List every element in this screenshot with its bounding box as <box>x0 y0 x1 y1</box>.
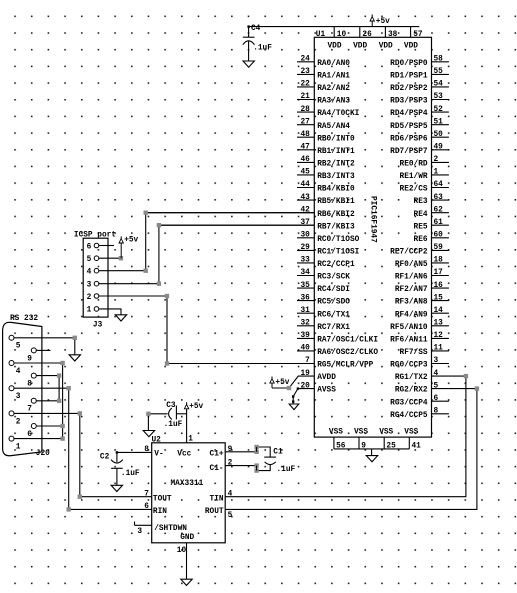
svg-text:RF0/AN5: RF0/AN5 <box>395 261 428 269</box>
svg-text:RG4/CCP5: RG4/CCP5 <box>390 412 428 420</box>
svg-text:RC2/CCP1: RC2/CCP1 <box>317 261 355 269</box>
IC U2 MAX3311 body <box>152 443 226 543</box>
ground (C3) <box>143 431 154 437</box>
svg-text:RS 232: RS 232 <box>10 315 38 323</box>
U1 pin 5 RG2/RX2 <box>395 382 449 394</box>
svg-text:5: 5 <box>87 256 92 264</box>
J20 pin 6 <box>27 424 62 439</box>
U1 pin 42 RB6/KBI2 <box>146 206 355 218</box>
U1 pin 43 RB5/KBI1 <box>297 194 355 206</box>
svg-text:6: 6 <box>27 431 32 439</box>
U1 pin 11 RF7/SS <box>400 345 449 357</box>
svg-text:GND: GND <box>180 534 194 542</box>
svg-text:16: 16 <box>434 282 444 290</box>
svg-text:9: 9 <box>228 446 233 454</box>
J3 pin 4 <box>87 268 99 276</box>
svg-text:15: 15 <box>434 294 444 302</box>
svg-text:3: 3 <box>137 528 142 536</box>
svg-text:2: 2 <box>16 418 21 426</box>
junction <box>57 373 61 377</box>
svg-text:RC1/T1OSI: RC1/T1OSI <box>317 249 359 257</box>
U1 pin 39 RA7/OSC1/CLKI <box>297 332 378 344</box>
J3 pin 5 <box>87 256 99 264</box>
svg-text:C2: C2 <box>100 453 110 461</box>
svg-text:6: 6 <box>87 243 92 251</box>
svg-text:RA2/AN2: RA2/AN2 <box>317 85 350 93</box>
svg-text:54: 54 <box>434 81 444 89</box>
svg-text:RD3/PSP3: RD3/PSP3 <box>390 98 428 106</box>
svg-text:8: 8 <box>434 408 439 416</box>
junction <box>57 399 61 403</box>
svg-text:17: 17 <box>434 269 444 277</box>
svg-text:.1uF: .1uF <box>164 421 183 429</box>
U1 pin 23 RA1/AN1 <box>297 68 350 80</box>
wire C1 jog bottom <box>256 466 258 471</box>
svg-text:.1uF: .1uF <box>253 45 272 53</box>
junction <box>157 282 161 286</box>
connector J20 RS232 DB9 shell <box>3 322 42 455</box>
svg-text:RF3/AN8: RF3/AN8 <box>395 299 428 307</box>
svg-text:9: 9 <box>27 355 32 363</box>
svg-text:58: 58 <box>434 56 444 64</box>
capacitor C4 <box>243 25 255 61</box>
capacitor C2 <box>111 451 123 485</box>
wire J20 pins 4-6-1 loopback <box>62 363 64 439</box>
J20 pin 7 <box>27 398 59 413</box>
U1 pin 49 RD7/PSP7 <box>390 144 449 156</box>
U1 pin 44 RB4/KBI0 <box>297 181 355 193</box>
svg-text:RA6/OSC2/CLKO: RA6/OSC2/CLKO <box>317 349 378 357</box>
U1 pin 36 RC5/SDO <box>297 294 350 306</box>
ground (C4) <box>243 61 254 67</box>
J20 pin 9 <box>27 348 50 363</box>
U2 pin 6 RIN <box>144 503 167 516</box>
svg-text:Vcc: Vcc <box>177 451 191 459</box>
svg-text:29: 29 <box>300 244 310 252</box>
svg-text:52: 52 <box>434 106 444 114</box>
+5V supply symbol (AVDD) <box>271 377 273 379</box>
svg-text:VSS: VSS <box>404 429 418 437</box>
U1 pin 35 RC4/SDI <box>297 282 350 294</box>
svg-text:32: 32 <box>300 320 310 328</box>
svg-text:RE5: RE5 <box>414 223 428 231</box>
svg-text:V-: V- <box>154 451 163 459</box>
svg-text:53: 53 <box>434 93 444 101</box>
svg-text:+5v: +5v <box>376 18 390 26</box>
svg-text:ROUT: ROUT <box>205 508 224 516</box>
svg-text:VDD: VDD <box>328 42 342 50</box>
svg-text:5: 5 <box>434 382 439 390</box>
J3 pin 3 <box>87 281 99 289</box>
svg-text:10: 10 <box>177 547 187 555</box>
U2 pin 2 C1- <box>210 459 257 473</box>
svg-text:RC3/SCK: RC3/SCK <box>317 274 350 282</box>
svg-text:RC5/SDO: RC5/SDO <box>317 299 350 307</box>
wire J20 pin2 to U2 TOUT <box>80 413 152 496</box>
U1 pin 34 RC3/SCK <box>297 269 350 281</box>
svg-text:RF2/AN7: RF2/AN7 <box>395 286 428 294</box>
J20 pin 1 <box>9 436 63 451</box>
U1 pin 60 RE6 <box>414 232 449 244</box>
svg-text:43: 43 <box>300 194 310 202</box>
svg-text:RG5/MCLR/VPP: RG5/MCLR/VPP <box>317 362 373 370</box>
junction <box>157 223 161 227</box>
svg-text:5: 5 <box>16 343 21 351</box>
junction <box>146 412 150 416</box>
svg-text:RD2/PSP2: RD2/PSP2 <box>390 85 428 93</box>
svg-text:RA5/AN4: RA5/AN4 <box>317 123 350 131</box>
svg-text:RD4/PSP4: RD4/PSP4 <box>390 110 428 118</box>
ground (J20 pin5) <box>69 355 80 361</box>
svg-text:RA7/OSC1/CLKI: RA7/OSC1/CLKI <box>317 337 378 345</box>
svg-text:.1uF: .1uF <box>277 466 296 474</box>
svg-text:62: 62 <box>434 206 444 214</box>
junction <box>73 336 77 340</box>
wire U2 TIN to U1 RG1/TX2 <box>225 376 466 497</box>
svg-text:RB0/INT0: RB0/INT0 <box>317 135 355 143</box>
svg-text:RB2/INT2: RB2/INT2 <box>317 161 355 169</box>
svg-text:1: 1 <box>16 444 21 452</box>
U1 pin 12 RF6/AN11 <box>390 332 449 344</box>
svg-text:21: 21 <box>300 93 310 101</box>
svg-text:7: 7 <box>144 490 149 498</box>
svg-text:31: 31 <box>300 307 310 315</box>
svg-text:57: 57 <box>413 31 423 39</box>
svg-text:23: 23 <box>300 68 310 76</box>
svg-text:C1-: C1- <box>210 465 224 473</box>
svg-text:RE2/CS: RE2/CS <box>400 186 428 194</box>
svg-text:59: 59 <box>434 244 444 252</box>
svg-text:25: 25 <box>386 442 396 450</box>
svg-text:RE0/RD: RE0/RD <box>400 161 428 169</box>
svg-text:8: 8 <box>144 446 149 454</box>
U1 pin 62 RE4 <box>414 206 449 218</box>
junction <box>119 256 123 260</box>
J20 pin 3 <box>9 386 69 401</box>
U1 pin 27 RA5/AN4 <box>297 118 350 130</box>
junction <box>254 463 258 467</box>
U2 pin 1 Vcc <box>177 409 193 459</box>
svg-text:RB1/INT1: RB1/INT1 <box>317 148 355 156</box>
junction <box>144 269 148 273</box>
svg-text:J3: J3 <box>93 322 103 330</box>
svg-text:12: 12 <box>434 332 444 340</box>
U2 pin 9 C1+ <box>210 446 257 458</box>
svg-text:26: 26 <box>362 31 372 39</box>
svg-text:VSS: VSS <box>354 429 368 437</box>
U1 pin 13 RF5/AN10 <box>390 320 449 332</box>
svg-text:RC4/SDI: RC4/SDI <box>317 286 350 294</box>
svg-text:RD7/PSP7: RD7/PSP7 <box>390 148 428 156</box>
svg-text:RB3/INT3: RB3/INT3 <box>317 173 355 181</box>
U1 pin 47 RB1/INT1 <box>297 144 355 156</box>
svg-text:36: 36 <box>300 294 310 302</box>
U1 pin 46 RB2/INT2 <box>297 156 355 168</box>
U1 pin 6 RG3/CCP4 <box>390 395 449 407</box>
svg-text:+5v: +5v <box>124 237 138 245</box>
svg-text:28: 28 <box>300 106 310 114</box>
svg-text:RA4/T0CKI: RA4/T0CKI <box>317 110 359 118</box>
svg-text:5: 5 <box>228 512 233 520</box>
junction <box>78 411 82 415</box>
J3 pin 2 <box>87 294 99 302</box>
svg-text:46: 46 <box>300 156 310 164</box>
U1 pin 32 RC7/RX1 <box>297 320 350 332</box>
svg-text:24: 24 <box>300 56 310 64</box>
svg-text:VDD: VDD <box>353 42 367 50</box>
U1 pin 7 RG5/MCLR/VPP <box>167 357 374 369</box>
svg-text:RF7/SS: RF7/SS <box>400 349 428 357</box>
svg-text:56: 56 <box>336 442 346 450</box>
svg-text:33: 33 <box>300 257 310 265</box>
U1 pin 16 RF2/AN7 <box>395 282 449 294</box>
capacitor C3 <box>148 406 186 420</box>
svg-text:TOUT: TOUT <box>153 495 172 503</box>
svg-text:RG0/CCP3: RG0/CCP3 <box>390 362 428 370</box>
svg-text:TIN: TIN <box>210 495 224 503</box>
svg-text:RA0/AN0: RA0/AN0 <box>317 60 350 68</box>
U1 pin 37 RB7/KBI3 <box>159 219 355 231</box>
svg-text:38: 38 <box>388 31 398 39</box>
U1 pin 48 RB0/INT0 <box>297 131 355 143</box>
svg-text:3: 3 <box>434 357 439 365</box>
svg-text:1: 1 <box>434 169 439 177</box>
J20 pin 5 <box>9 335 75 350</box>
junction <box>254 468 258 472</box>
svg-text:44: 44 <box>300 181 310 189</box>
wire J3 pin1 to ground <box>99 309 121 315</box>
junction <box>165 361 169 365</box>
svg-text:49: 49 <box>434 144 444 152</box>
svg-text:63: 63 <box>434 194 444 202</box>
svg-text:11: 11 <box>434 345 444 353</box>
svg-text:34: 34 <box>300 269 310 277</box>
U1 pin 63 RE3 <box>414 194 449 206</box>
U1 pin 55 RD1/PSP1 <box>390 68 449 80</box>
+5V supply symbol (ICSP) <box>120 236 122 238</box>
U1 pin 30 RC0/T1OSO <box>297 232 360 244</box>
svg-text:50: 50 <box>434 131 444 139</box>
wire J20 pin3 to U2 RIN <box>69 388 152 509</box>
U1 pin 1 RE1/WR <box>400 169 449 181</box>
svg-text:RG3/CCP4: RG3/CCP4 <box>390 399 428 407</box>
wire C3 to ground <box>147 414 149 431</box>
svg-text:C1: C1 <box>273 448 283 456</box>
U2 pin 7 TOUT <box>144 490 172 503</box>
svg-text:4: 4 <box>434 370 439 378</box>
junction <box>287 386 291 390</box>
U2 pin 5 ROUT <box>205 508 233 520</box>
svg-text:20: 20 <box>300 382 310 390</box>
svg-text:14: 14 <box>434 307 444 315</box>
U1 pin 31 RC6/TX1 <box>297 307 350 319</box>
VDD supply rail wire <box>249 27 420 38</box>
svg-text:40: 40 <box>300 345 310 353</box>
svg-text:6: 6 <box>144 503 149 511</box>
wire J3 pin4 to U1 RB6 <box>99 213 314 271</box>
svg-text:45: 45 <box>300 169 310 177</box>
svg-text:PIC16F1947: PIC16F1947 <box>369 196 377 243</box>
svg-text:9: 9 <box>361 442 366 450</box>
J3 pin 6 <box>87 243 99 251</box>
svg-text:RIN: RIN <box>153 508 167 516</box>
J3 pin 1 <box>87 307 99 315</box>
wire J20 pin5 to ground <box>74 338 76 355</box>
wire C1 jog top <box>256 447 258 452</box>
U1 pin 64 RE2/CS <box>400 181 449 193</box>
svg-text:60: 60 <box>434 232 444 240</box>
svg-text:51: 51 <box>434 118 444 126</box>
U1 pin 21 RA3/AN3 <box>297 93 350 105</box>
ground (C2) <box>111 485 122 491</box>
junction <box>254 450 258 454</box>
svg-text:RE3: RE3 <box>414 198 428 206</box>
svg-text:35: 35 <box>300 282 310 290</box>
svg-text:19: 19 <box>300 370 310 378</box>
svg-text:J20: J20 <box>36 450 50 458</box>
svg-text:2: 2 <box>87 294 92 302</box>
U1 VSS pins 56 9 25 41 <box>329 429 421 451</box>
svg-text:RD6/PSP6: RD6/PSP6 <box>390 135 428 143</box>
junction <box>475 386 479 390</box>
svg-text:RC7/RX1: RC7/RX1 <box>317 324 350 332</box>
U1 pin 54 RD2/PSP2 <box>390 81 449 93</box>
U1 pin 20 AVSS <box>298 382 336 394</box>
junction <box>60 436 64 440</box>
svg-text:RF1/AN6: RF1/AN6 <box>395 274 428 282</box>
svg-text:RF4/AN9: RF4/AN9 <box>395 311 428 319</box>
svg-text:C1+: C1+ <box>210 451 224 459</box>
wire J3 pin3 to U1 RB7 <box>99 225 314 284</box>
svg-text:47: 47 <box>300 144 310 152</box>
svg-text:ICSP port: ICSP port <box>74 232 116 240</box>
svg-text:RD1/PSP1: RD1/PSP1 <box>390 73 428 81</box>
svg-text:RB5/KBI1: RB5/KBI1 <box>317 198 355 206</box>
junction <box>254 445 258 449</box>
wire U2 ROUT to U1 RG2/RX2 <box>225 389 477 510</box>
U2 pin 8 V- <box>117 446 164 458</box>
svg-text:6: 6 <box>434 395 439 403</box>
svg-text:RA3/AN3: RA3/AN3 <box>317 98 350 106</box>
U1 pin 58 RD0/PSP0 <box>390 56 449 68</box>
svg-text:1: 1 <box>87 307 92 315</box>
U1 pin 28 RA4/T0CKI <box>297 106 360 118</box>
U1 pin 53 RD3/PSP3 <box>390 93 449 105</box>
svg-text:RE6: RE6 <box>414 236 428 244</box>
svg-text:C4: C4 <box>251 25 261 33</box>
svg-text:13: 13 <box>434 320 444 328</box>
connector J3 ICSP body <box>83 238 108 317</box>
svg-text:RB7/KBI3: RB7/KBI3 <box>317 223 355 231</box>
+5V supply symbol (top) <box>371 14 373 16</box>
svg-text:4: 4 <box>16 368 21 376</box>
svg-text:/SHTDWN: /SHTDWN <box>154 525 187 533</box>
wire U1 AVSS to ground <box>292 387 299 404</box>
U1 pin 45 RB3/INT3 <box>297 169 355 181</box>
svg-text:VDD: VDD <box>379 42 393 50</box>
junction <box>67 507 71 511</box>
wire J3 pin2 to U1 MCLR <box>99 296 314 364</box>
svg-text:48: 48 <box>300 131 310 139</box>
svg-text:VDD: VDD <box>404 42 418 50</box>
wire J20 pins 8-7 loopback <box>58 376 60 401</box>
IC U1 PIC16F1947 body <box>314 37 431 437</box>
J20 pin 8 <box>27 373 59 388</box>
svg-text:RB6/KBI2: RB6/KBI2 <box>317 211 355 219</box>
junction <box>78 495 82 499</box>
junction <box>165 294 169 298</box>
svg-text:RD5/PSP5: RD5/PSP5 <box>390 123 428 131</box>
svg-text:VSS: VSS <box>379 429 393 437</box>
ground (AVSS) <box>289 404 299 410</box>
junction <box>60 361 64 365</box>
svg-text:RB4/KBI0: RB4/KBI0 <box>317 186 355 194</box>
wire +5V to U1 AVDD <box>272 376 298 388</box>
svg-text:+5v: +5v <box>189 403 203 411</box>
svg-text:C3: C3 <box>166 402 176 410</box>
svg-text:4: 4 <box>87 269 92 277</box>
U1 pin 24 RA0/AN0 <box>297 56 350 68</box>
ground (J3 pin1) <box>115 315 126 321</box>
U1 pin 15 RF3/AN8 <box>395 294 449 306</box>
U1 pin 51 RD5/PSP5 <box>390 118 449 130</box>
svg-text:30: 30 <box>300 232 310 240</box>
svg-text:RC6/TX1: RC6/TX1 <box>317 311 350 319</box>
svg-text:U1: U1 <box>316 31 326 39</box>
svg-text:RG1/TX2: RG1/TX2 <box>395 374 428 382</box>
svg-text:.1uF: .1uF <box>121 470 140 478</box>
U1 pin 50 RD6/PSP6 <box>390 131 449 143</box>
ground (U2 pin10) <box>181 579 192 585</box>
J20 pin 4 <box>9 361 63 376</box>
U1 VDD pins 10 26 38 57 <box>328 31 423 50</box>
U1 pin 61 RE5 <box>414 219 449 231</box>
wire J3 pin5 to +5V <box>99 257 121 259</box>
U1 pin 2 RE0/RD <box>400 156 449 168</box>
U2 pin 3 /SHTDWN <box>135 522 188 537</box>
svg-text:3: 3 <box>87 282 92 290</box>
svg-text:RC0/T1OSO: RC0/T1OSO <box>317 236 359 244</box>
svg-text:RE4: RE4 <box>414 211 428 219</box>
J20 pin 2 <box>9 411 80 426</box>
U1 pin 29 RC1/T1OSI <box>297 244 360 256</box>
U1 pin 4 RG1/TX2 <box>395 370 449 382</box>
svg-text:RA1/AN1: RA1/AN1 <box>317 73 350 81</box>
svg-text:8: 8 <box>27 381 32 389</box>
svg-text:10: 10 <box>337 31 347 39</box>
svg-text:18: 18 <box>434 257 444 265</box>
ground (U1 VSS) <box>371 449 373 456</box>
capacitor C1 <box>257 447 277 471</box>
svg-text:RE1/WR: RE1/WR <box>400 173 428 181</box>
svg-text:39: 39 <box>300 332 310 340</box>
U1 pin 22 RA2/AN2 <box>297 81 350 93</box>
svg-text:RG2/RX2: RG2/RX2 <box>395 387 428 395</box>
+5V supply symbol (U2 Vcc) <box>186 402 188 404</box>
U1 pin 3 RG0/CCP3 <box>390 357 449 369</box>
svg-text:2: 2 <box>434 156 439 164</box>
U1 pin 18 RF0/AN5 <box>395 257 449 269</box>
svg-text:RF5/AN10: RF5/AN10 <box>390 324 428 332</box>
junction <box>67 386 71 390</box>
svg-text:U2: U2 <box>152 436 162 444</box>
svg-text:AVSS: AVSS <box>317 387 336 395</box>
U1 pin 17 RF1/AN6 <box>395 269 449 281</box>
U1 pin 52 RD4/PSP4 <box>390 106 449 118</box>
svg-text:7: 7 <box>27 406 32 414</box>
junction <box>60 424 64 428</box>
svg-text:41: 41 <box>412 442 422 450</box>
